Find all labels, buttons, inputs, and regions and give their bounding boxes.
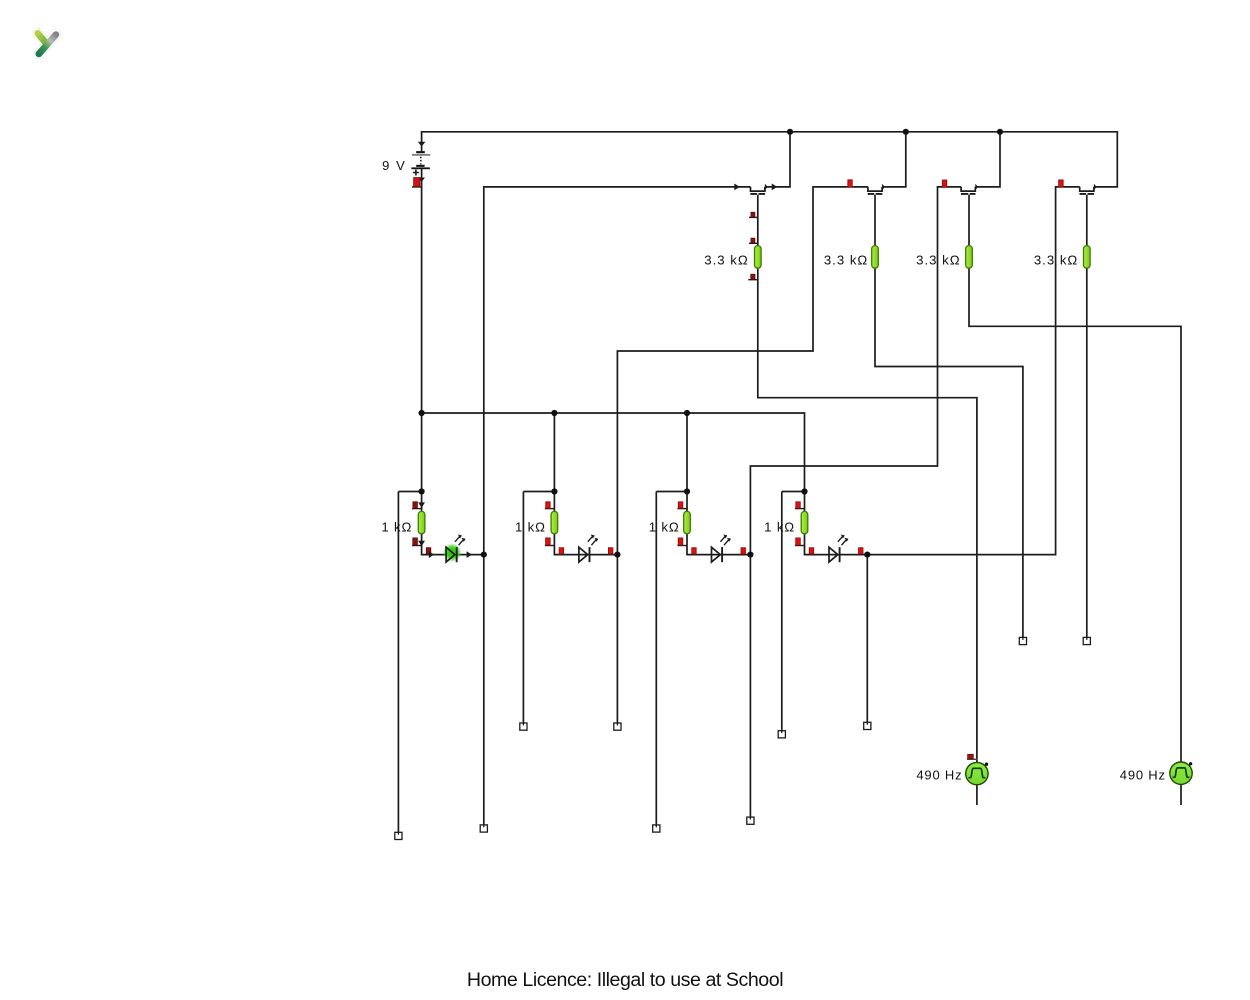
svg-text:1 kΩ: 1 kΩ [764, 520, 795, 535]
svg-text:490 Hz: 490 Hz [916, 767, 962, 782]
svg-text:Home Licence: Illegal to use a: Home Licence: Illegal to use at School [467, 969, 783, 991]
svg-text:3.3 kΩ: 3.3 kΩ [1034, 252, 1078, 267]
svg-text:3.3 kΩ: 3.3 kΩ [824, 252, 868, 267]
svg-text:1 kΩ: 1 kΩ [381, 520, 412, 535]
svg-text:3.3 kΩ: 3.3 kΩ [704, 252, 748, 267]
svg-text:9 V: 9 V [382, 158, 406, 173]
svg-text:1 kΩ: 1 kΩ [515, 520, 546, 535]
svg-text:1 kΩ: 1 kΩ [649, 520, 680, 535]
svg-text:490 Hz: 490 Hz [1120, 767, 1166, 782]
svg-text:3.3 kΩ: 3.3 kΩ [916, 252, 960, 267]
